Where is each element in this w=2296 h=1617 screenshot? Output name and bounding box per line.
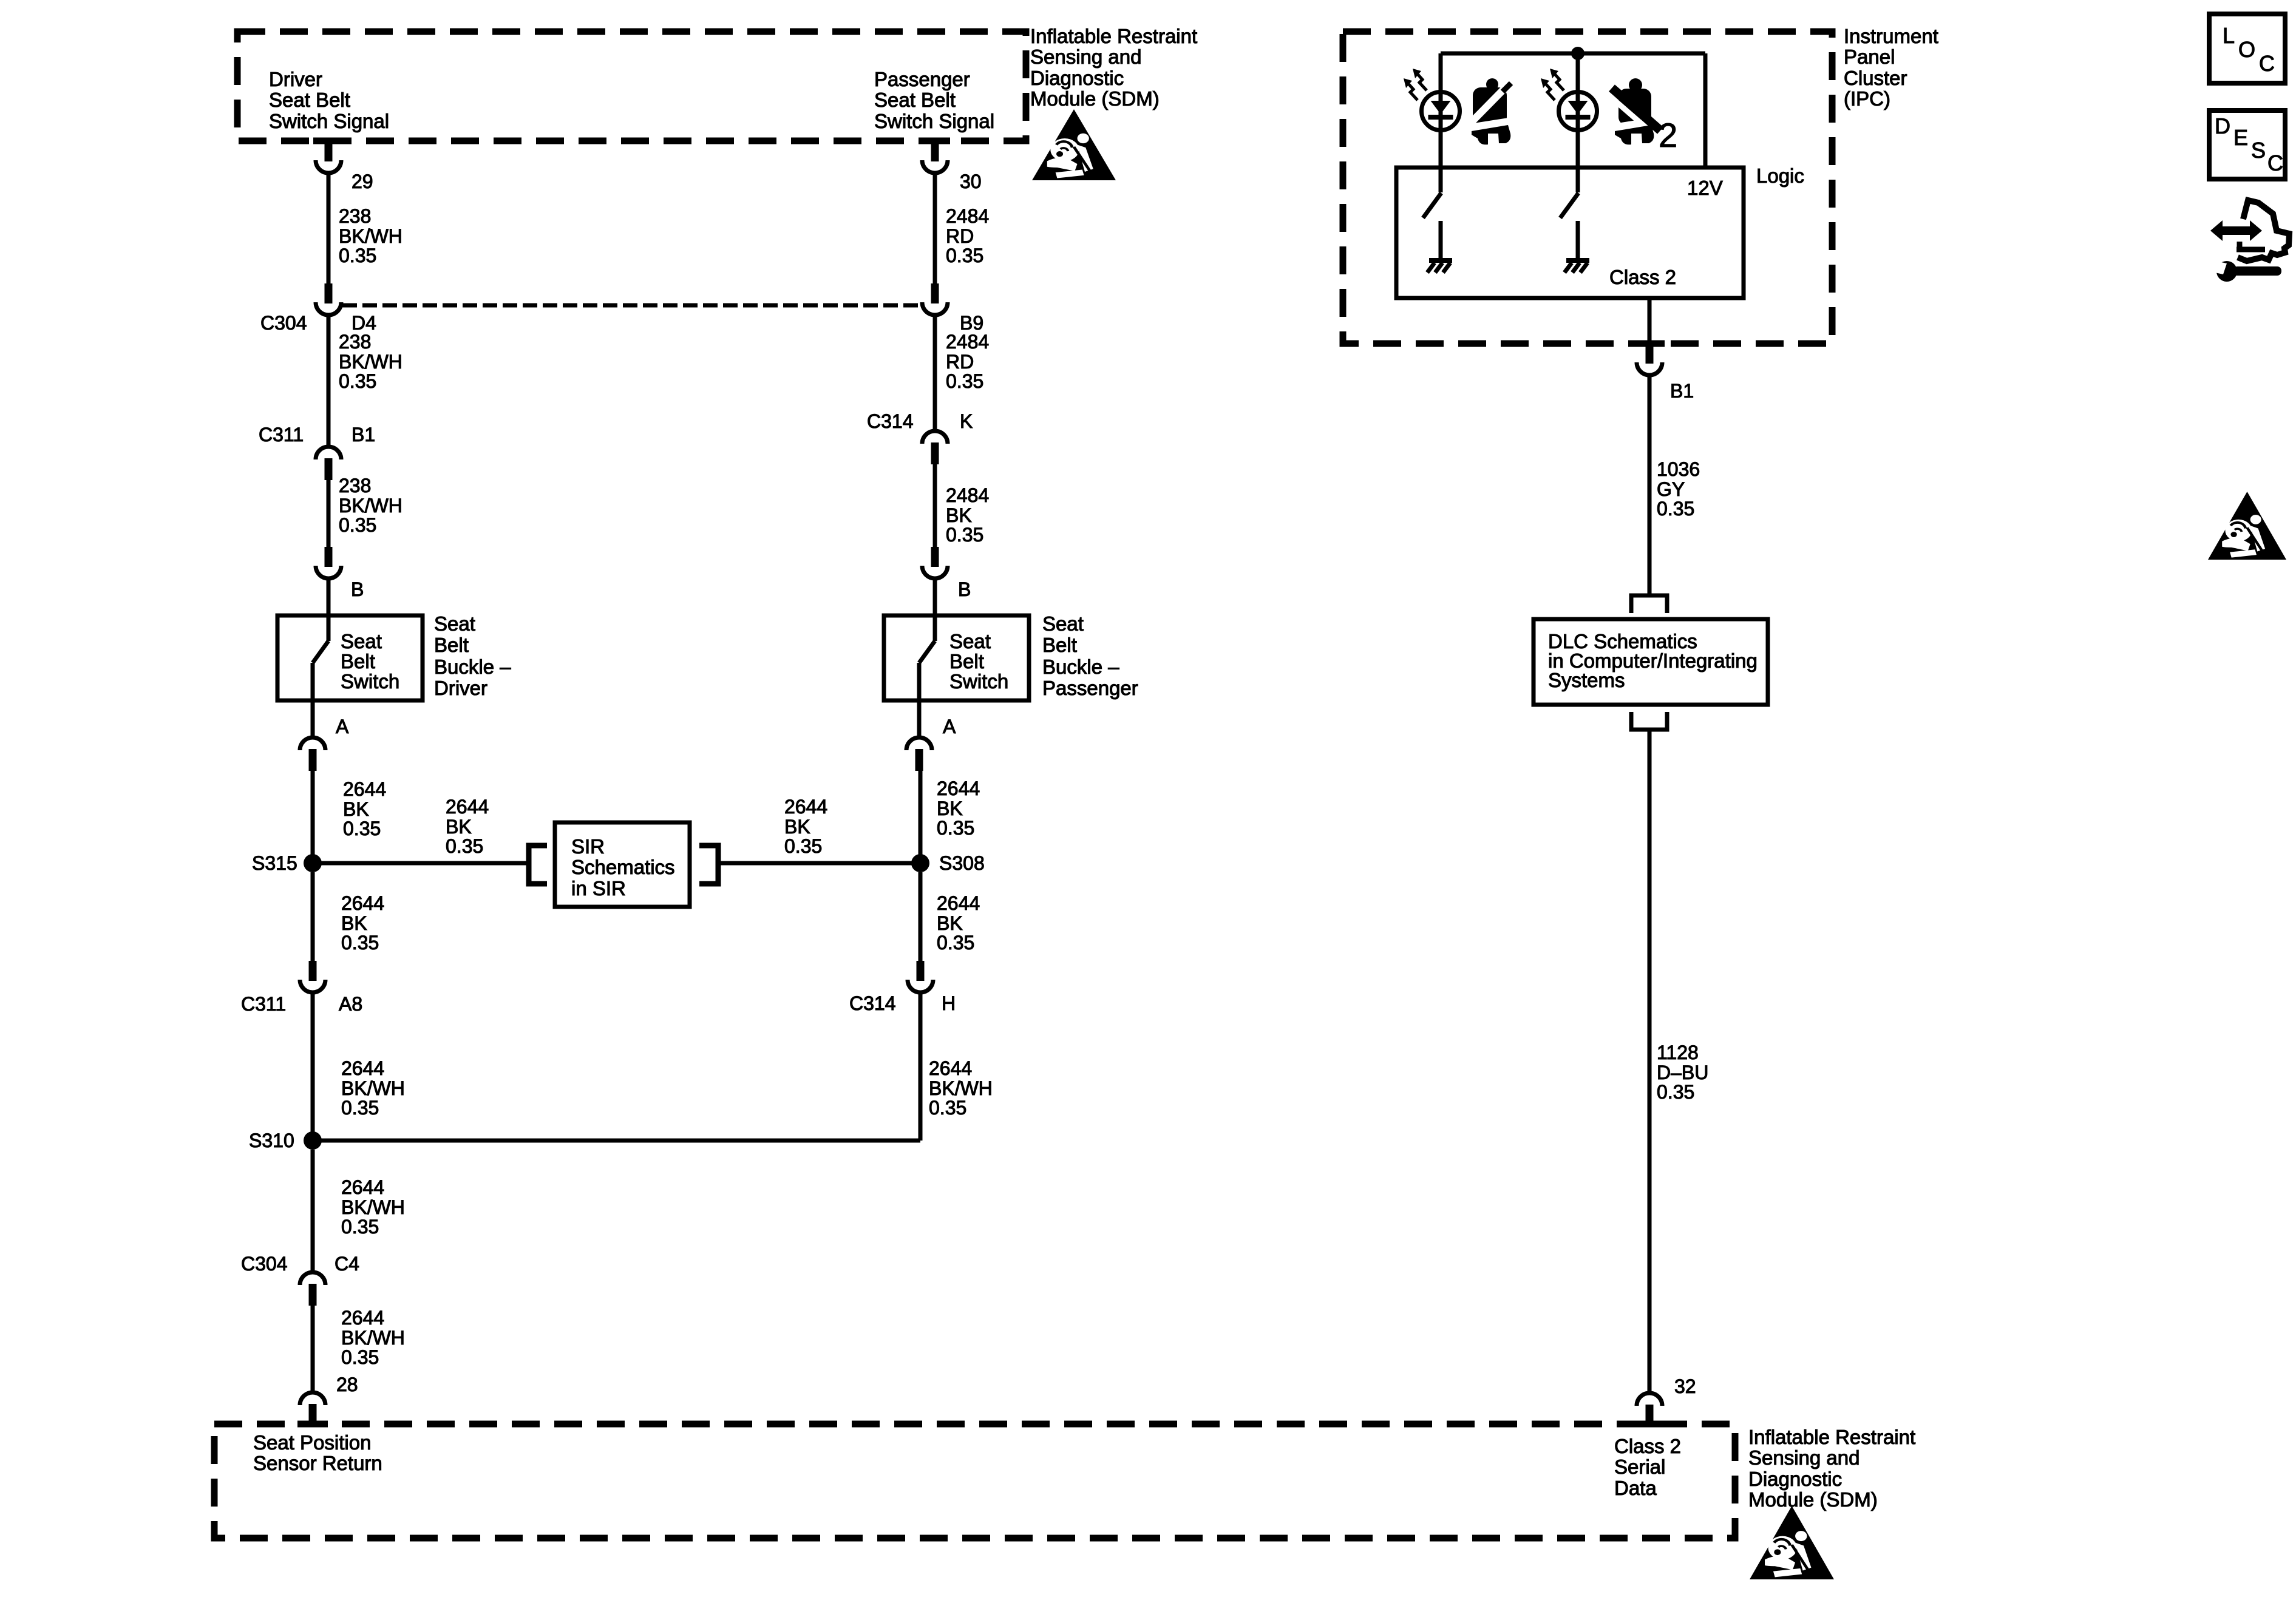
connector C314 pin K <box>922 431 948 464</box>
legend LOC box <box>2209 14 2285 83</box>
svg-text:Switch Signal: Switch Signal <box>269 110 389 132</box>
svg-text:S310: S310 <box>249 1130 294 1151</box>
svg-text:RD: RD <box>946 225 974 247</box>
svg-text:Serial: Serial <box>1614 1456 1665 1478</box>
svg-text:Seat Belt: Seat Belt <box>874 89 956 111</box>
svg-text:A: A <box>336 716 349 737</box>
svg-text:Diagnostic: Diagnostic <box>1748 1468 1842 1490</box>
svg-text:C311: C311 <box>241 993 286 1015</box>
label Seat Belt Buckle - Passenger <box>1042 612 1138 699</box>
svg-text:1036: 1036 <box>1657 458 1700 480</box>
svg-text:238: 238 <box>339 475 371 497</box>
wire label 1128 D-BU 0.35 <box>1657 1042 1708 1103</box>
svg-text:12V: 12V <box>1687 177 1723 199</box>
svg-text:2644: 2644 <box>446 796 489 818</box>
svg-text:2484: 2484 <box>946 331 989 353</box>
svg-text:C314: C314 <box>849 992 896 1014</box>
wire 2644 BK from A to S308 <box>919 771 923 863</box>
svg-text:0.35: 0.35 <box>343 818 381 839</box>
svg-text:0.35: 0.35 <box>341 1346 379 1368</box>
svg-text:2644: 2644 <box>937 892 980 914</box>
svg-text:Driver: Driver <box>434 677 487 699</box>
light emission arrows (passenger LED) <box>1541 69 1564 100</box>
wire label 2644 BK 0.35 (right of SIR box) <box>784 796 827 857</box>
svg-text:GY: GY <box>1657 478 1685 500</box>
svg-text:Buckle –: Buckle – <box>434 656 511 678</box>
connector C304 pin C4 <box>300 1272 325 1306</box>
airbag warning triangle icon (bottom SDM) <box>1750 1506 1834 1579</box>
svg-text:BK/WH: BK/WH <box>339 351 402 373</box>
connector pin 32 at SDM bottom <box>1637 1393 1662 1426</box>
connector pin A at passenger buckle <box>906 737 932 771</box>
LED driver seat belt indicator <box>1422 92 1460 131</box>
off-page bracket above DLC box <box>1631 595 1667 613</box>
svg-text:28: 28 <box>336 1374 358 1395</box>
wire label 2644 BK 0.35 (above S308) <box>937 778 980 839</box>
off-page bracket below DLC box <box>1631 712 1667 730</box>
svg-text:B: B <box>351 578 364 600</box>
wire dash anchor at pin B1 <box>1634 341 1665 347</box>
wire 2484 BK from C314 to passenger buckle pin B <box>933 464 937 548</box>
svg-text:BK/WH: BK/WH <box>339 225 402 247</box>
svg-text:0.35: 0.35 <box>946 524 983 546</box>
svg-text:2644: 2644 <box>341 1176 384 1198</box>
connector C304 pin B9 <box>922 283 948 315</box>
connector C311 pin A8 <box>300 961 325 992</box>
svg-text:in SIR: in SIR <box>571 877 626 900</box>
wire label 2644 BK 0.35 (below driver A) <box>343 778 386 839</box>
svg-text:0.35: 0.35 <box>929 1097 966 1119</box>
wire class 2 serial data out of logic box <box>1648 298 1652 344</box>
svg-text:C314: C314 <box>867 410 914 432</box>
ground symbol (passenger lamp driver) <box>1564 260 1589 273</box>
svg-text:BK/WH: BK/WH <box>341 1327 405 1349</box>
wire dash anchor at pin 30 <box>920 138 950 144</box>
wire 1128 D-BU from DLC to pin 32 <box>1648 730 1652 1393</box>
splice S310 <box>304 1131 322 1150</box>
wire from S310 to passenger branch <box>313 1139 920 1143</box>
svg-text:BK/WH: BK/WH <box>341 1196 405 1218</box>
connector C314 pin H <box>908 961 933 992</box>
reference box SIR Schematics in SIR <box>555 822 690 907</box>
svg-text:Seat Belt: Seat Belt <box>269 89 350 111</box>
label Inflatable Restraint Sensing and Diagnostic Module (SDM) bottom <box>1748 1426 1915 1511</box>
svg-text:E: E <box>2233 125 2248 150</box>
svg-text:O: O <box>2238 37 2255 62</box>
svg-text:Belt: Belt <box>1042 634 1077 656</box>
svg-text:Systems: Systems <box>1548 669 1625 691</box>
switch S driver Seat Belt Switch box <box>277 615 423 700</box>
svg-text:L: L <box>2223 23 2235 48</box>
wire label 2644 BK 0.35 (left of SIR box) <box>446 796 489 857</box>
wire label 2484 RD 0.35 (pin 30) <box>946 205 989 266</box>
wire label 2644 BK/WH 0.35 (below S310) <box>341 1176 405 1238</box>
svg-text:Class 2: Class 2 <box>1609 266 1676 288</box>
splice S315 <box>304 854 322 872</box>
svg-text:Module (SDM): Module (SDM) <box>1030 87 1160 110</box>
svg-text:Module (SDM): Module (SDM) <box>1748 1488 1878 1511</box>
switch blade (passenger seat belt switch) <box>919 615 935 703</box>
legend connector repair icon (arrow, terminal outline, wrench) <box>2210 200 2289 282</box>
IPC logic box <box>1396 168 1744 298</box>
svg-text:2644: 2644 <box>341 1057 384 1079</box>
svg-text:C: C <box>2267 151 2283 175</box>
wire 238 BK/WH from C311 to driver buckle pin B <box>327 480 331 548</box>
svg-text:Seat: Seat <box>949 630 991 653</box>
svg-text:2644: 2644 <box>937 778 980 799</box>
wire 238 BK/WH from C304 to C311 <box>327 314 331 447</box>
svg-text:C304: C304 <box>241 1253 288 1275</box>
svg-text:C311: C311 <box>259 424 304 446</box>
svg-text:Belt: Belt <box>434 634 469 656</box>
svg-text:2644: 2644 <box>929 1057 972 1079</box>
wire 2644 BK/WH from S310 to C304 C4 <box>311 1150 315 1272</box>
svg-text:B1: B1 <box>352 424 375 446</box>
wire 2644 BK from S315 down to C311 A8 <box>311 872 315 962</box>
label Instrument Panel Cluster (IPC) <box>1844 25 1938 110</box>
svg-text:0.35: 0.35 <box>946 245 983 266</box>
svg-text:C4: C4 <box>335 1253 359 1275</box>
wire through driver telltale LED <box>1439 53 1443 169</box>
net Class 2 Serial Data label <box>1614 1435 1681 1499</box>
icon driver seat belt telltale <box>1470 78 1511 144</box>
wire label 2484 BK 0.35 (below K) <box>946 484 989 546</box>
wire dash anchor at pin 28 <box>297 1421 328 1428</box>
svg-text:Buckle –: Buckle – <box>1042 656 1119 678</box>
LED passenger seat belt indicator <box>1559 92 1597 131</box>
label Inflatable Restraint Sensing and Diagnostic Module (SDM) top <box>1030 25 1197 110</box>
connector pin 28 at SDM bottom <box>300 1392 325 1426</box>
svg-text:B1: B1 <box>1670 380 1694 402</box>
svg-text:0.35: 0.35 <box>937 817 974 839</box>
svg-text:Belt: Belt <box>341 650 375 673</box>
net Passenger Seat Belt Switch Signal label <box>874 68 994 132</box>
wire to ground (passenger lamp driver) <box>1576 221 1580 259</box>
connector pin 29 at SDM <box>316 141 341 173</box>
svg-text:BK: BK <box>784 816 810 838</box>
connector pin A at driver buckle <box>300 737 325 771</box>
wire label 238 BK/WH 0.35 (pin 29) <box>339 205 402 266</box>
wire 2644 BK from A to S315 <box>311 771 315 863</box>
svg-text:BK: BK <box>937 798 963 819</box>
wire dash anchor at pin 29 <box>313 138 344 144</box>
connector pin 30 at SDM <box>922 141 948 173</box>
wire IPC right drop to logic box <box>1703 53 1708 169</box>
svg-text:0.35: 0.35 <box>946 370 983 392</box>
wire into driver switch box <box>327 577 331 615</box>
svg-text:D–BU: D–BU <box>1657 1062 1708 1083</box>
svg-text:C: C <box>2259 51 2275 76</box>
wire from S315 to SIR bracket <box>313 861 527 866</box>
svg-text:0.35: 0.35 <box>339 245 376 266</box>
svg-text:0.35: 0.35 <box>341 1216 379 1238</box>
svg-text:Inflatable Restraint: Inflatable Restraint <box>1748 1426 1915 1448</box>
wire through passenger telltale LED <box>1576 53 1580 169</box>
svg-text:2644: 2644 <box>784 796 827 818</box>
svg-text:0.35: 0.35 <box>446 835 483 857</box>
svg-text:Seat: Seat <box>434 612 475 635</box>
svg-text:Data: Data <box>1614 1477 1657 1499</box>
connector C304 pin D4 <box>316 283 341 315</box>
switch inside IPC (passenger lamp driver) <box>1560 169 1578 218</box>
svg-text:238: 238 <box>339 205 371 227</box>
net Driver Seat Belt Switch Signal label <box>269 68 389 132</box>
legend DESC box <box>2209 110 2285 179</box>
svg-text:Passenger: Passenger <box>874 68 970 90</box>
wire label 238 BK/WH 0.35 (below C311) <box>339 475 402 536</box>
wire dash anchor at pin 32 <box>1634 1421 1665 1428</box>
svg-text:Inflatable Restraint: Inflatable Restraint <box>1030 25 1197 47</box>
wire label 238 BK/WH 0.35 (below C304) <box>339 331 402 392</box>
svg-text:Belt: Belt <box>949 650 984 673</box>
connector pin B1 at IPC <box>1637 344 1662 375</box>
ground symbol (driver lamp driver) <box>1427 260 1452 273</box>
svg-text:BK: BK <box>343 798 369 820</box>
wire label 1036 GY 0.35 <box>1657 458 1700 520</box>
wire 2644 BK/WH from A8 to S310 <box>311 991 315 1141</box>
wire 2484 RD from C304 to C314 K <box>933 314 937 431</box>
svg-text:Cluster: Cluster <box>1844 67 1907 89</box>
svg-text:B: B <box>958 578 971 600</box>
svg-text:Instrument: Instrument <box>1844 25 1938 47</box>
svg-text:0.35: 0.35 <box>937 932 974 954</box>
connector C311 pin B1 <box>316 447 341 480</box>
svg-text:0.35: 0.35 <box>341 932 379 954</box>
svg-text:0.35: 0.35 <box>1657 498 1694 520</box>
svg-text:0.35: 0.35 <box>339 370 376 392</box>
svg-text:2644: 2644 <box>341 1307 384 1329</box>
svg-text:BK/WH: BK/WH <box>929 1077 993 1099</box>
svg-text:1128: 1128 <box>1657 1042 1699 1063</box>
connector pin B at driver seat belt switch <box>316 547 341 578</box>
svg-text:BK: BK <box>446 816 472 838</box>
svg-text:BK: BK <box>341 912 367 934</box>
off-page bracket right of SIR box <box>699 846 718 884</box>
switch blade (driver seat belt switch) <box>313 615 328 703</box>
svg-text:S315: S315 <box>252 852 297 874</box>
splice S308 <box>911 854 929 872</box>
wire 1036 GY from B1 to DLC bracket <box>1648 374 1652 595</box>
wire into passenger switch box <box>933 577 937 615</box>
wire 2484 RD from pin 30 to C304 <box>933 172 937 285</box>
airbag warning triangle icon (legend) <box>2208 492 2286 560</box>
svg-text:A: A <box>943 716 956 737</box>
wire to ground (driver lamp driver) <box>1439 221 1443 259</box>
svg-text:Diagnostic: Diagnostic <box>1030 67 1124 89</box>
svg-text:2484: 2484 <box>946 205 989 227</box>
svg-text:2644: 2644 <box>341 892 384 914</box>
label Seat Belt Buckle - Driver <box>434 612 511 699</box>
svg-text:0.35: 0.35 <box>1657 1081 1694 1103</box>
module IPC (Instrument Panel Cluster) dashed box <box>1343 32 1832 344</box>
wire from passenger switch pin A <box>917 703 922 737</box>
net Seat Position Sensor Return label <box>253 1431 382 1474</box>
svg-text:Schematics: Schematics <box>571 856 675 878</box>
svg-text:S308: S308 <box>939 852 985 874</box>
svg-text:Switch: Switch <box>341 670 399 693</box>
wire label 2644 BK 0.35 (below S308) <box>937 892 980 954</box>
connector C304 boundary dotted line <box>342 303 921 308</box>
svg-text:Passenger: Passenger <box>1042 677 1138 699</box>
svg-text:Class 2: Class 2 <box>1614 1435 1681 1457</box>
wire label 2644 BK/WH 0.35 (below A8) <box>341 1057 405 1119</box>
svg-text:30: 30 <box>960 171 982 192</box>
svg-text:RD: RD <box>946 351 974 373</box>
wire from driver switch pin A <box>311 703 315 737</box>
svg-text:Sensing and: Sensing and <box>1030 46 1141 68</box>
svg-text:0.35: 0.35 <box>341 1097 379 1119</box>
svg-text:32: 32 <box>1674 1375 1696 1397</box>
wire 2644 BK/WH from C4 to pin 28 <box>311 1306 315 1392</box>
svg-text:Logic: Logic <box>1756 164 1804 187</box>
svg-text:2644: 2644 <box>343 778 386 800</box>
icon passenger seat belt telltale <box>1609 78 1660 144</box>
svg-text:BK: BK <box>946 504 972 526</box>
airbag warning triangle icon (top SDM) <box>1032 109 1116 180</box>
svg-text:S: S <box>2251 138 2266 163</box>
switch S passenger Seat Belt Switch box <box>884 615 1029 700</box>
off-page bracket left of SIR box <box>529 846 547 884</box>
wire 2644 BK from S308 down to C314 H <box>919 872 923 962</box>
svg-text:(IPC): (IPC) <box>1844 87 1890 110</box>
svg-text:H: H <box>942 992 956 1014</box>
svg-text:Sensing and: Sensing and <box>1748 1446 1860 1469</box>
svg-text:Switch: Switch <box>949 670 1008 693</box>
wire label 2644 BK 0.35 (below S315) <box>341 892 384 954</box>
svg-text:0.35: 0.35 <box>784 835 822 857</box>
wire label 2644 BK/WH 0.35 (below H) <box>929 1057 993 1119</box>
wire label 2484 RD 0.35 (below B9) <box>946 331 989 392</box>
light emission arrows (driver LED) <box>1404 69 1427 100</box>
module SDM (Inflatable Restraint Sensing and Diagnostic Module) top dashed box <box>237 32 1026 141</box>
svg-text:C304: C304 <box>260 312 307 334</box>
connector pin B at passenger seat belt switch <box>922 547 948 578</box>
svg-text:238: 238 <box>339 331 371 353</box>
wire 2644 BK/WH from C314 H down to S310 branch <box>919 991 923 1141</box>
svg-text:Seat: Seat <box>1042 612 1084 635</box>
svg-text:Seat Position: Seat Position <box>253 1431 371 1454</box>
svg-text:K: K <box>960 410 973 432</box>
svg-text:BK: BK <box>937 912 963 934</box>
svg-text:D: D <box>2215 114 2230 138</box>
svg-text:SIR: SIR <box>571 835 605 858</box>
module SDM bottom dashed box <box>214 1424 1735 1538</box>
junction dot IPC top bus <box>1571 47 1584 60</box>
svg-text:Panel: Panel <box>1844 46 1895 68</box>
svg-text:BK/WH: BK/WH <box>339 495 402 517</box>
svg-text:0.35: 0.35 <box>339 514 376 536</box>
svg-text:Seat: Seat <box>341 630 382 653</box>
switch inside IPC (driver lamp driver) <box>1423 169 1441 218</box>
svg-text:A8: A8 <box>339 993 362 1015</box>
svg-text:Sensor Return: Sensor Return <box>253 1452 382 1474</box>
svg-text:29: 29 <box>352 171 373 192</box>
svg-text:2484: 2484 <box>946 484 989 506</box>
wire 238 BK/WH from pin 29 to C304 <box>327 172 331 285</box>
reference box DLC Schematics in Computer/Integrating Systems <box>1533 619 1768 705</box>
wire IPC internal top bus <box>1441 52 1705 56</box>
svg-text:Switch Signal: Switch Signal <box>874 110 994 132</box>
svg-text:Driver: Driver <box>269 68 322 90</box>
wire from SIR bracket to S308 <box>718 861 920 866</box>
svg-text:BK/WH: BK/WH <box>341 1077 405 1099</box>
svg-text:2: 2 <box>1659 116 1677 154</box>
wire label 2644 BK/WH 0.35 (below C4) <box>341 1307 405 1368</box>
